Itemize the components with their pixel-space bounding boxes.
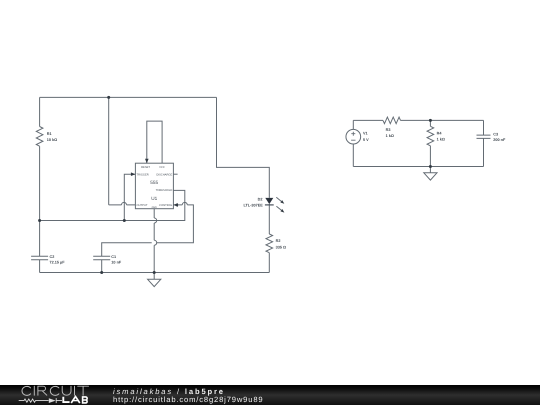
svg-text:R2: R2 [276, 239, 281, 243]
svg-text:RESET: RESET [141, 166, 150, 169]
svg-text:1 kΩ: 1 kΩ [386, 134, 394, 138]
svg-text:555: 555 [150, 180, 158, 185]
svg-text:72.15 µF: 72.15 µF [50, 260, 66, 264]
svg-text:200 nF: 200 nF [493, 138, 506, 142]
svg-text:VCC: VCC [159, 166, 165, 169]
svg-text:10 kΩ: 10 kΩ [47, 138, 57, 142]
svg-text:5 V: 5 V [363, 138, 369, 142]
svg-text:C1: C1 [111, 255, 116, 259]
svg-text:GND: GND [152, 206, 157, 209]
svg-text:LTL-307EE: LTL-307EE [243, 203, 263, 207]
svg-text:THRESHOLD: THRESHOLD [156, 189, 173, 192]
svg-text:TRIGGER: TRIGGER [137, 173, 149, 176]
svg-text:335 Ω: 335 Ω [276, 245, 286, 249]
svg-text:OUTPUT: OUTPUT [137, 204, 148, 207]
svg-text:DISCHARGE: DISCHARGE [156, 173, 172, 176]
svg-text:C2: C2 [50, 255, 55, 259]
svg-text:D2: D2 [258, 197, 263, 201]
svg-text:R1: R1 [47, 132, 52, 136]
svg-text:V1: V1 [363, 132, 368, 136]
svg-text:C3: C3 [493, 133, 498, 137]
svg-text:U1: U1 [151, 196, 157, 201]
svg-text:R4: R4 [437, 132, 443, 136]
svg-text:CONTROL: CONTROL [159, 204, 173, 207]
svg-text:10 nF: 10 nF [111, 260, 122, 264]
svg-text:1 kΩ: 1 kΩ [437, 137, 445, 141]
svg-text:R3: R3 [386, 128, 391, 132]
